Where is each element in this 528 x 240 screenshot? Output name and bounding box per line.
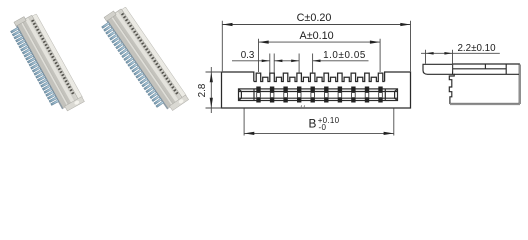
- connector photo 2: [98, 4, 189, 117]
- dimension 1.0: [291, 50, 368, 73]
- photo1 dot row: [31, 19, 74, 94]
- side body outline: [449, 64, 519, 103]
- svg-text:2.2±0.10: 2.2±0.10: [457, 43, 496, 54]
- photo2 top face highlight: [115, 12, 179, 103]
- photo2 end nub: [178, 98, 184, 104]
- contact mid ticks: [257, 93, 383, 97]
- svg-text:B: B: [309, 117, 317, 131]
- photo1 top face: [22, 15, 79, 105]
- dimension 0.3: [232, 50, 299, 73]
- svg-text:A±0.10: A±0.10: [300, 30, 334, 42]
- photo2 top face: [112, 9, 183, 105]
- side arm: [423, 64, 453, 74]
- svg-text:-0: -0: [319, 123, 327, 132]
- svg-text:0.3: 0.3: [241, 50, 255, 61]
- castellated top profile: [254, 73, 385, 81]
- band middle lines: [239, 92, 398, 99]
- side view: [423, 64, 519, 103]
- contacts in band: [256, 87, 382, 103]
- photo1 front face: [16, 21, 67, 108]
- dimension 2.8: [197, 67, 222, 113]
- svg-text:C±0.20: C±0.20: [297, 12, 332, 24]
- connector photo 1: [7, 11, 84, 117]
- stray tick marks: [301, 105, 305, 109]
- dimension A: [259, 30, 381, 72]
- photo2 far face: [121, 7, 186, 98]
- band left end cap: [239, 89, 255, 101]
- svg-text:2.8: 2.8: [197, 83, 208, 97]
- photo2 pin shadow strip: [105, 19, 168, 110]
- contact band outline: [239, 89, 398, 101]
- housing outline front view: [222, 72, 411, 108]
- side internal lines: [453, 64, 520, 74]
- photo1 end tab left: [14, 17, 26, 27]
- dimension B: [244, 109, 394, 136]
- photo2 front face: [106, 16, 172, 109]
- front view drawing: [222, 72, 411, 108]
- photo1 pin shadow strip: [15, 24, 63, 110]
- photo1 end block right: [65, 97, 85, 111]
- photo1 top face highlight: [25, 18, 75, 104]
- photo2 dot row: [121, 13, 178, 95]
- photo2 pins: [102, 22, 164, 107]
- svg-text:1.0±0.05: 1.0±0.05: [323, 50, 366, 61]
- dimension C: [222, 12, 410, 71]
- photo1 end nub: [74, 100, 80, 106]
- photo2 end block right: [169, 95, 188, 111]
- photo1 far face: [32, 14, 83, 100]
- dimension 2.2: [421, 43, 500, 71]
- photo2 front edge: [110, 15, 173, 106]
- photo1 front edge: [20, 21, 68, 107]
- photo1 pins: [11, 27, 59, 105]
- photo2 end tab left: [104, 11, 116, 21]
- band right end cap: [385, 89, 397, 101]
- side thick edges: [450, 65, 520, 105]
